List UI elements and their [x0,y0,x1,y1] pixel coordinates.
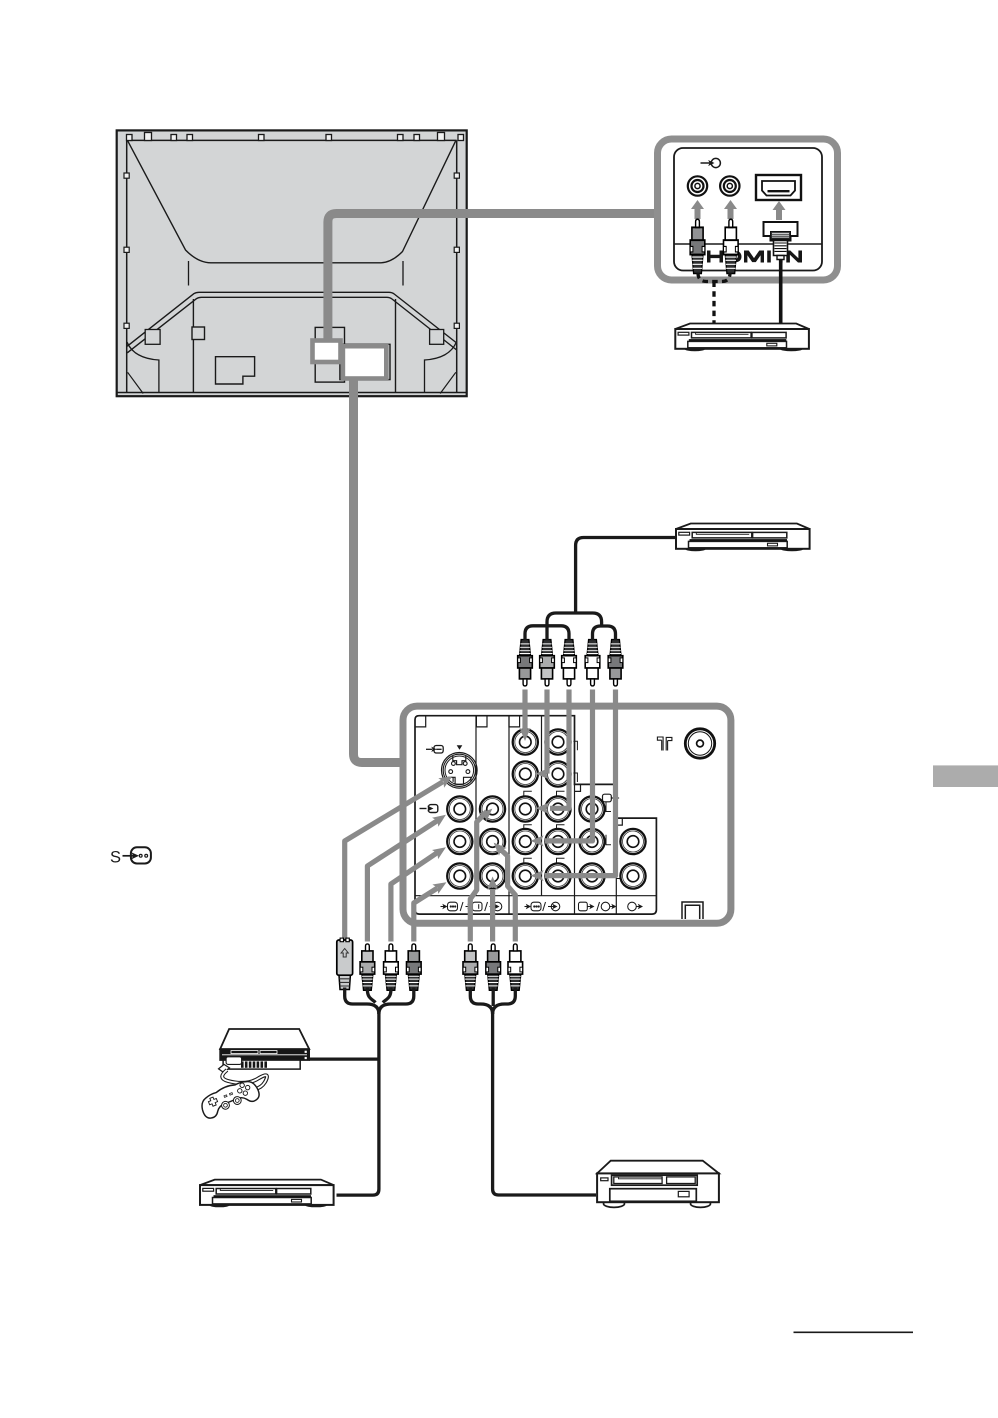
right group fan-out wires [470,988,596,1196]
icon video in [466,906,471,908]
small square latch left-center [192,327,205,340]
lower-left bus bar [525,626,569,640]
S-video legend label [110,849,121,867]
trapezoid ticks [189,261,404,286]
jacks column 1 [447,796,472,821]
HDMI IN label [707,250,802,262]
audio L jack (front) [688,176,707,195]
bottom corner diagonals [128,372,456,393]
up arrow 1 [691,200,704,219]
face bottom edge line [675,243,822,245]
corner tabs [415,716,622,825]
RCA plug audio R red [407,944,422,990]
inset face plate [674,148,822,271]
RCA plug Pb (blue) [540,640,555,686]
RCA plug video (yellow) [360,944,375,990]
controller cable [222,1070,267,1091]
RCA plug Pr (red) [562,640,577,686]
arrow into Y jack [520,728,531,741]
top clips [127,133,464,141]
callout line to side panel inset [328,214,655,342]
icon S-video in 2 [525,906,530,908]
gray rods from AV group (bottom right) [470,811,515,941]
chapter tab (right edge) [933,765,998,787]
wire Pr plug to component video Pr jack [550,690,569,809]
HDMI port [756,175,801,200]
S-video input icon [426,746,443,754]
monitor-out icon [603,794,616,802]
jacks column 2 [480,796,505,821]
arrow into audio-in R jack [432,878,449,894]
video-in icon (line 1) [420,805,438,813]
stepped service plate [216,357,255,384]
column dividers [476,716,616,914]
wire Y plug to component video Y jack [522,690,527,735]
wire Pb plug to component video Pb jack [544,690,549,774]
power cord bracket [682,902,703,919]
lower-right bus bar [593,626,616,640]
icon S-video in [441,906,446,908]
wire audio L plug to audio L jack [545,690,593,841]
verticals below band [193,299,395,393]
PlayStation console [219,1029,310,1072]
arrow into Pr jack [536,803,549,814]
arrow into video-in 2 jack [479,805,496,822]
arrow into S-video connector [438,772,455,788]
left group fan-out wires [309,988,414,1196]
rear AV panel inset [403,706,731,923]
label strip icons [441,902,640,911]
jack brackets [524,741,622,878]
right foot [425,342,457,393]
icon audio in [490,906,496,908]
icon monitor video out [579,902,588,911]
icon audio out [628,902,637,911]
RCA plug audio 2 R (red) [486,944,501,990]
callout line to rear AV panel [354,379,405,763]
arrow into video-in jack [432,810,449,827]
DVD player (HDMI source) [675,324,809,352]
game controller [198,1076,262,1120]
dashed audio cable [698,273,730,329]
wire audio L plug to audio-in L jack [391,853,438,942]
upper bus bar [547,613,602,640]
arrow into audio L jack [531,835,544,846]
icon monitor audio out [601,902,610,911]
HDMI connector plug [764,222,798,260]
HDMI cable [779,260,783,330]
jacks column 6 [620,829,645,854]
wire S-video plug to S-video jack [345,782,443,942]
antenna F-connector [685,729,714,758]
svg-text:S: S [110,849,121,867]
terminal cutout B (black outline) [340,344,390,379]
TV inner frame lines [117,140,467,392]
inset border [658,139,838,280]
jacks column 4 [545,729,570,754]
RCA plug into audio L (dark) [690,219,705,273]
triangle marker [457,745,463,749]
arrow into audio-in 2 L jack [490,839,507,856]
HDMI service box (gray highlight) [313,341,341,363]
wire video plug to video-in jack [367,820,438,941]
component cable fan-out wires [525,538,677,641]
DVD player (component source) [676,524,810,552]
RCA plug audio 2 L (white) [508,944,523,990]
wire audio R plug to audio-in R jack [414,888,438,942]
left foot [127,342,159,393]
projection screen trapezoid [128,141,456,263]
panel border [403,706,731,923]
up arrow 2 [724,200,737,219]
S-video plug (bottom group) [337,938,353,989]
S-video connector [442,753,478,789]
jacks column 3 [513,729,538,754]
footer rule [794,1331,914,1333]
audio R jack (front) [720,176,739,195]
arrow into Pb jack [536,768,549,779]
RCA plug Y (green) [518,640,533,686]
RCA plug into audio R (white) [724,219,739,273]
RCA plug audio L (white) [585,640,600,686]
terminal cutout A (black outline) [315,327,344,382]
DVD player (bottom left) [200,1180,334,1208]
up arrow 3 [773,201,786,220]
jacks column 5 [579,796,604,821]
TV outer cabinet [117,130,467,396]
side panel inset (HDMI IN) [658,139,838,329]
gray cable rods from component plugs (top) [525,690,616,876]
connector block outline [415,716,656,914]
RCA plug video 2 (yellow) [463,944,478,990]
wire audio R plug to audio R jack [545,690,616,876]
video-in icon [701,158,721,167]
gray rods from S-video group (bottom left) [345,782,443,942]
VCR [597,1161,719,1208]
AV terminal box (gray highlight) [343,346,386,378]
lower band double line [127,292,456,346]
side clips [124,173,459,328]
arrow into audio-in 2 R jack [487,877,498,890]
cable from DVD player to bus [576,538,677,614]
icon audio in 2 [548,906,554,908]
TV rear view [117,130,467,396]
RCA plug audio L white [384,944,399,990]
label strip top [415,895,656,897]
antenna symbol [657,737,672,751]
arrow into audio R jack [531,870,544,881]
RCA plug audio R (red) [608,640,623,686]
arrow into audio-in L jack [432,843,449,859]
